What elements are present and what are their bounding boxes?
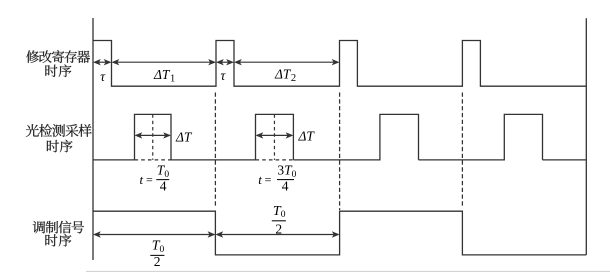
dimension arrow T0/2 (second half period) [215, 231, 339, 237]
svg-text:2: 2 [275, 222, 282, 237]
faint page rule at bottom [86, 270, 610, 272]
dashed centre line of sampling pulse 1 [152, 114, 154, 159]
right boundary line [585, 18, 587, 255]
svg-text:t: t [258, 172, 262, 187]
dashed centre line of sampling pulse 2 [273, 114, 275, 159]
svg-text:ΔT: ΔT [298, 129, 316, 144]
dimension arrow tau (pulse1 width) [93, 59, 112, 65]
row label: light-detect sampling line1 [26, 124, 92, 137]
vertical dashed alignment line at x=215.4 [214, 93, 216, 207]
waveform: modulation signal timing (bottom row) [93, 211, 586, 255]
label t = 3T0/4 [258, 163, 296, 194]
waveform: light-detection sampling timing (middle row) [93, 114, 586, 159]
svg-text:2: 2 [154, 254, 161, 269]
dimension arrow tau (pulse2 width) [216, 59, 234, 65]
dashed baseline under sampling pulse 1 [135, 159, 172, 161]
svg-text:t: t [140, 172, 144, 187]
dimension arrow T0/2 (first half period) [93, 231, 215, 237]
dimension arrow Delta-T2 [234, 59, 340, 65]
svg-text:4: 4 [282, 178, 289, 193]
row label: register-modify timing line1 [26, 50, 90, 63]
label t = T0/4 [140, 163, 170, 194]
dimension arrow Delta-T (pulse2) [256, 132, 294, 138]
dashed baseline under sampling pulse 2 [256, 159, 294, 161]
row label: register-modify timing line2 [45, 64, 71, 77]
row label: light-detect sampling line2 [47, 140, 73, 153]
svg-text:=: = [265, 173, 272, 187]
left axis line [92, 18, 94, 260]
row label: modulation signal line1 [33, 221, 84, 234]
svg-text:ΔT: ΔT [175, 130, 193, 145]
vertical dashed alignment line at x=462.4 [461, 93, 463, 207]
label T0/2 (first half) [150, 239, 164, 270]
waveform: register-modify timing (top row) [93, 41, 586, 87]
vertical dashed alignment line at x=339.6 [339, 93, 341, 211]
dimension arrow Delta-T1 [112, 59, 217, 65]
label T0/2 (second half) [272, 204, 286, 237]
svg-text:=: = [146, 173, 153, 187]
row label: modulation signal line2 [45, 234, 71, 247]
svg-text:4: 4 [160, 178, 167, 193]
dimension arrow Delta-T (pulse1) [135, 132, 172, 138]
